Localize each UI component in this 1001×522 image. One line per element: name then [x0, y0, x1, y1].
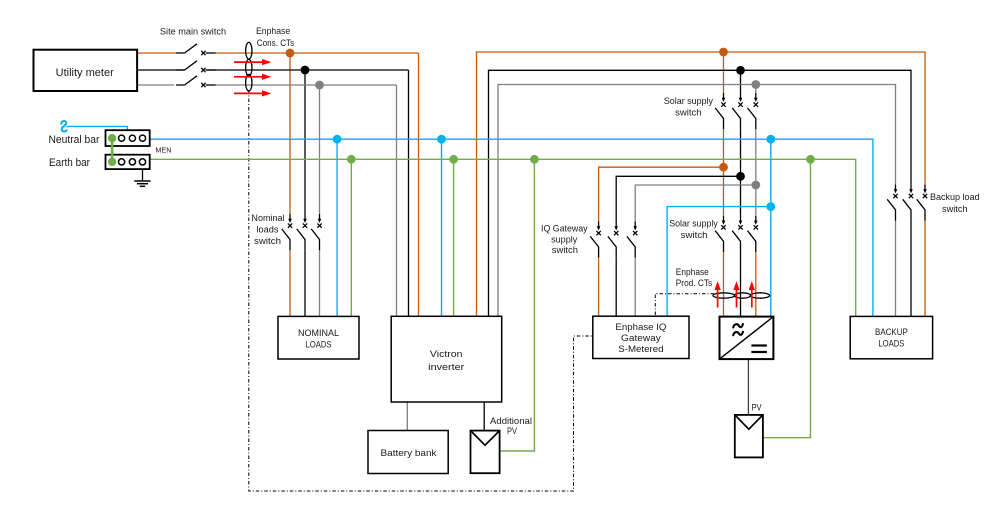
svg-text:Solar supply: Solar supply	[664, 96, 714, 106]
svg-text:Nominal: Nominal	[251, 213, 284, 223]
svg-text:Battery bank: Battery bank	[381, 448, 437, 459]
svg-text:Additional: Additional	[490, 416, 532, 426]
svg-text:Enphase: Enphase	[676, 267, 709, 277]
svg-text:Enphase: Enphase	[256, 26, 290, 36]
svg-text:Victron: Victron	[430, 349, 463, 360]
svg-text:supply: supply	[551, 234, 578, 244]
svg-text:Neutral bar: Neutral bar	[49, 134, 100, 146]
svg-text:IQ Gateway: IQ Gateway	[541, 224, 588, 234]
svg-text:switch: switch	[675, 107, 701, 117]
svg-text:PV: PV	[751, 402, 761, 412]
svg-text:LOADS: LOADS	[306, 340, 332, 351]
svg-text:Backup load: Backup load	[930, 192, 980, 202]
svg-text:Gateway: Gateway	[621, 333, 661, 344]
svg-text:Cons. CTs: Cons. CTs	[257, 38, 295, 48]
svg-text:switch: switch	[681, 230, 708, 240]
svg-text:Prod. CTs: Prod. CTs	[676, 278, 713, 288]
svg-text:switch: switch	[552, 245, 578, 255]
svg-text:Utility meter: Utility meter	[56, 67, 115, 79]
svg-text:BACKUP: BACKUP	[875, 327, 908, 338]
svg-text:Earth bar: Earth bar	[49, 157, 90, 169]
svg-text:MEN: MEN	[155, 145, 171, 154]
svg-text:PV: PV	[507, 426, 517, 436]
svg-text:switch: switch	[942, 204, 968, 214]
svg-text:LOADS: LOADS	[878, 339, 904, 350]
svg-text:S-Metered: S-Metered	[618, 344, 663, 355]
svg-text:loads: loads	[257, 225, 280, 235]
svg-text:switch: switch	[254, 236, 281, 246]
svg-text:inverter: inverter	[428, 362, 464, 373]
svg-text:NOMINAL: NOMINAL	[298, 328, 339, 339]
svg-text:Enphase IQ: Enphase IQ	[615, 322, 666, 333]
svg-text:Solar supply: Solar supply	[669, 219, 718, 229]
svg-text:Site main switch: Site main switch	[160, 27, 226, 37]
